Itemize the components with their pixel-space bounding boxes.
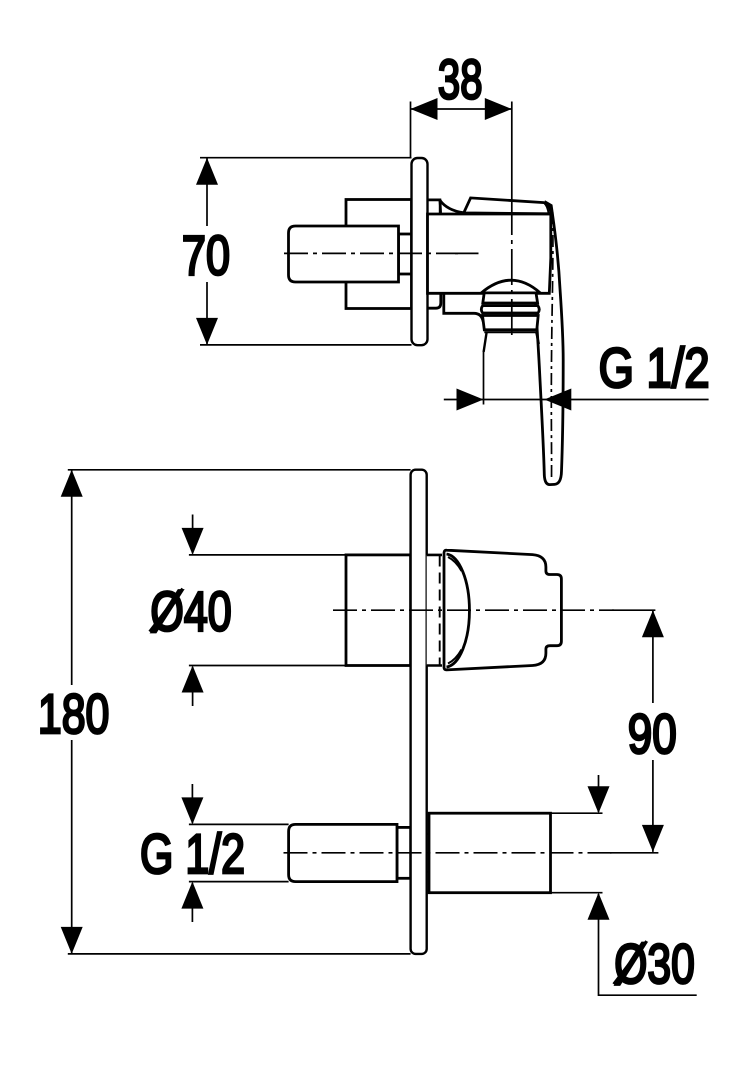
cap dome silhouette arc <box>447 554 470 667</box>
dimension 90: bottom arrowhead (pointing down) <box>642 825 664 852</box>
svg-text:70: 70 <box>182 223 230 286</box>
dimension G 1/2 bottom: extension line top <box>189 823 289 825</box>
dimension 38: extension line left <box>410 102 412 159</box>
dimension 70: top arrowhead <box>196 158 218 185</box>
dimension 70: bottom arrowhead <box>196 318 218 345</box>
dimension Ø40: bottom arrowhead (pointing up) <box>182 666 204 693</box>
faucet body (top view) <box>428 214 551 293</box>
dimension 180: extension line top <box>68 469 411 471</box>
dimension Ø30: extension line top <box>551 812 603 814</box>
dimension Ø40: top arrowhead (pointing down) <box>182 528 204 555</box>
concealed housing box (bottom view) <box>346 555 411 666</box>
collar top segment (top view) <box>428 200 441 214</box>
dimension 180: dimension line with text gap <box>71 470 73 954</box>
lower centerline (bottom view, dash-dot) <box>284 852 613 854</box>
mounting box behind wall (top view) <box>346 200 412 309</box>
wall plate (top view, edge-on) <box>412 158 428 345</box>
svg-text:Ø30: Ø30 <box>614 932 695 995</box>
outlet taper band 1 (top view) <box>483 293 538 303</box>
outlet pipe stub extension to dimension line <box>483 352 485 405</box>
dimension 38: left arrowhead <box>411 98 438 120</box>
outlet ring line 2 <box>483 315 538 317</box>
dimension 38: dimension line <box>411 108 512 110</box>
neck between pipe and wall plate (top view) <box>399 234 412 274</box>
dimension Ø40: top arrow stem <box>192 515 194 554</box>
lever handle centerline (dash-dot) <box>551 212 553 480</box>
svg-text:G 1/2: G 1/2 <box>140 822 245 885</box>
lever cap on body (top view) <box>464 198 551 214</box>
dimension 90: top arrowhead (pointing up) <box>642 610 664 637</box>
threaded inlet pipe G1/2 (top view) <box>289 226 399 282</box>
collar bottom segment (top view) <box>428 293 441 308</box>
outlet nut bulge (top view) <box>481 306 539 313</box>
dimension G 1/2 bottom: bottom arrow stem <box>191 883 193 922</box>
outlet ring line 1 <box>483 305 538 307</box>
dimension Ø30: bottom arrowhead (up) <box>588 893 610 920</box>
horizontal centerline of inlet (top view, dash-dot) <box>284 252 458 254</box>
dimension 180: top arrowhead <box>61 470 83 497</box>
svg-text:G 1/2: G 1/2 <box>599 336 710 399</box>
svg-text:90: 90 <box>628 702 677 765</box>
cap rim double-line bottom <box>448 650 462 664</box>
upper centerline (bottom view, dash-dot) <box>333 609 614 611</box>
dimension 90: dimension line with text gap <box>652 610 654 852</box>
dimension 180: extension line bottom <box>68 953 411 955</box>
dimension Ø30: leader stem below with underline <box>599 894 697 995</box>
dimension 70: dimension line with text gap <box>206 158 208 345</box>
outlet pipe stub left edge (top view) <box>484 332 487 352</box>
dimension Ø40: bottom arrow stem <box>192 667 194 706</box>
dimension 38: outlet axis extension (solid then dash-dot) <box>511 102 513 200</box>
G 1/2 top: left-pointing arrowhead at outlet right <box>544 389 571 411</box>
dimension 180: bottom arrowhead <box>61 927 83 954</box>
svg-text:38: 38 <box>438 48 483 111</box>
dimension Ø30: top arrow stem <box>598 775 600 812</box>
outlet pipe stub right edge merging into blade <box>536 332 539 344</box>
svg-text:Ø40: Ø40 <box>150 580 231 643</box>
G 1/2 top: right-pointing arrowhead at outlet left <box>457 389 484 411</box>
lower neck between pipe and plate (bottom view) <box>397 827 411 878</box>
dimension Ø30: top arrowhead (down) <box>588 786 610 813</box>
dimension 70: extension line bottom <box>200 344 412 346</box>
hidden edge dashed line behind collar <box>439 556 441 666</box>
dimension Ø40: extension line bottom <box>189 665 346 667</box>
cap left concave curve <box>440 200 464 213</box>
right neck ticks at lower outlet (bottom view) <box>427 834 430 872</box>
outlet cylinder Ø30 (bottom view) <box>429 813 551 893</box>
outlet band 3 (top view) <box>483 316 539 330</box>
dimension Ø40: diameter slash overstroke <box>150 589 183 632</box>
dimension Ø30: extension line bottom <box>551 892 603 894</box>
dimension G 1/2 bottom: extension line bottom <box>189 881 289 883</box>
cartridge cap body (bottom view) <box>444 550 561 670</box>
outlet bracket below body (top view) <box>444 293 483 321</box>
collar behind cap (bottom view) <box>427 555 443 666</box>
dimension G 1/2 bottom: top arrowhead (down) <box>181 797 203 824</box>
lever handle blade (top view) <box>534 203 563 485</box>
dimension Ø30: diameter slash overstroke <box>614 941 647 984</box>
cap right corner inner line <box>545 203 549 213</box>
G 1/2 top: dimension/leader line <box>444 399 709 401</box>
dimension G 1/2 bottom: bottom arrowhead (up) <box>181 882 203 909</box>
outlet ring line 3 <box>484 331 537 333</box>
dimension 38: right arrowhead <box>485 98 512 120</box>
cap rim double-line top <box>448 557 462 571</box>
svg-text:180: 180 <box>38 682 110 745</box>
dimension Ø40: extension line top <box>189 554 346 556</box>
dimension G 1/2 bottom: top arrow stem <box>191 784 193 823</box>
outlet dome (top view) <box>481 280 540 293</box>
wall plate (bottom view) <box>411 470 427 954</box>
dimension 70: extension line top <box>200 157 412 159</box>
lower inlet pipe G1/2 (bottom view) <box>289 824 397 881</box>
